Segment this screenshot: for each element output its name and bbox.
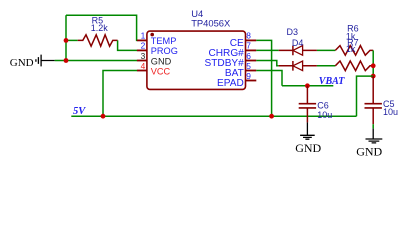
wire CHRG# pin7 to D3 (256, 49, 278, 51)
ground flag GND (under C5) (356, 129, 382, 159)
wire right riser (R6/R7 to C5 top) (372, 50, 374, 76)
resistor R6 (335, 46, 373, 56)
junction (GND wire) (64, 58, 69, 63)
IC U4 TP4056X (147, 31, 246, 89)
wire BAT pin5 to VBAT (256, 71, 282, 86)
junction (VCC / bus) (101, 114, 106, 119)
node 5V label (73, 106, 86, 117)
wire D4 to R7 (317, 65, 335, 67)
label C5 value 10u (383, 99, 398, 117)
diode D3 (279, 46, 317, 56)
svg-text:VCC: VCC (151, 66, 171, 76)
pin 8 CE (230, 31, 257, 49)
capacitor C6 (299, 86, 316, 123)
wire VCC pin4 to bus (103, 71, 137, 117)
svg-text:10u: 10u (383, 107, 398, 117)
node VBAT label (319, 76, 345, 87)
pin 1 TEMP (137, 31, 176, 47)
wire CE pin8 to bus (256, 40, 271, 116)
wire R5 to pin2 (118, 40, 137, 50)
wire VBAT net (282, 85, 333, 87)
capacitor C5 (365, 76, 382, 124)
wire GND net: left vertical riser (65, 15, 67, 60)
ground flag GND (under C6) (295, 122, 321, 154)
label U4 (191, 8, 231, 29)
junction (C6 / VBAT) (305, 83, 310, 88)
svg-text:2: 2 (141, 41, 146, 51)
svg-text:1k: 1k (346, 44, 356, 54)
svg-text:1: 1 (141, 31, 146, 41)
pin 4 VCC (137, 61, 171, 77)
wire C5 to ground flag (372, 124, 374, 128)
ground flag GND (left) (10, 55, 55, 69)
svg-text:9: 9 (246, 71, 251, 81)
svg-text:1.2k: 1.2k (91, 23, 109, 33)
svg-text:D3: D3 (287, 27, 299, 37)
wire corner to 5V bus (357, 76, 374, 116)
junction (R5 left) (64, 38, 69, 43)
svg-text:GND: GND (295, 141, 321, 155)
svg-text:7: 7 (246, 41, 251, 51)
junction (riser / C5 / corner) (371, 74, 376, 79)
svg-text:GND: GND (10, 57, 34, 69)
diode D4 (279, 61, 317, 71)
svg-text:GND: GND (356, 144, 382, 158)
svg-text:3: 3 (141, 51, 146, 61)
svg-text:5V: 5V (73, 106, 86, 117)
pin 6 STDBY# (205, 51, 257, 69)
svg-text:TP4056X: TP4056X (191, 18, 231, 29)
svg-text:C6: C6 (317, 100, 329, 110)
pin 7 CHRG# (208, 41, 256, 59)
wire GND net: top bypass to pin1 (66, 15, 137, 40)
junction (CE / bus) (269, 114, 274, 119)
wire STDBY# pin6 jog to D4 row (256, 61, 278, 66)
label R5 value 1.2k (91, 15, 109, 33)
wire GND net: flag to junction, to pin3 (55, 60, 137, 62)
pin 5 BAT (225, 61, 256, 79)
label R6 value 1k / R7 value 1k (346, 23, 359, 54)
pin 2 PROG (137, 41, 178, 57)
pin 3 GND (137, 51, 172, 67)
svg-text:EPAD: EPAD (217, 78, 244, 89)
svg-text:VBAT: VBAT (319, 76, 345, 87)
svg-text:10u: 10u (317, 110, 332, 120)
wire 5V bus (71, 115, 356, 117)
svg-text:TEMP: TEMP (151, 36, 177, 46)
svg-text:D4: D4 (292, 38, 304, 48)
junction (R7 / riser) (371, 63, 376, 68)
pin 9 EPAD (217, 71, 256, 89)
wire D3 to R6 (317, 49, 335, 51)
resistor R7 (335, 61, 373, 71)
svg-text:GND: GND (151, 56, 172, 66)
svg-text:PROG: PROG (151, 46, 178, 56)
svg-text:4: 4 (141, 61, 146, 71)
svg-text:6: 6 (246, 51, 251, 61)
svg-text:5: 5 (246, 61, 251, 71)
label C6 value 10u (317, 100, 332, 120)
resistor R5 (66, 35, 118, 46)
svg-text:8: 8 (246, 31, 251, 41)
